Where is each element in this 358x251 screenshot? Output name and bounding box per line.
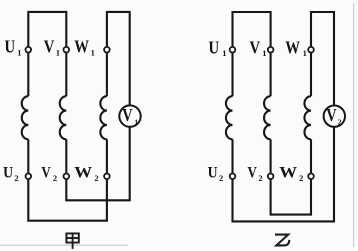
svg-text:2: 2 [338, 118, 342, 127]
svg-text:V: V [41, 164, 51, 182]
svg-text:V: V [122, 105, 133, 126]
svg-text:1: 1 [303, 48, 307, 58]
svg-text:W: W [285, 37, 300, 58]
svg-text:1: 1 [134, 117, 138, 126]
svg-text:V: V [44, 36, 55, 57]
svg-text:W: W [74, 36, 89, 57]
svg-text:V: V [326, 104, 337, 125]
svg-text:V: V [250, 37, 261, 58]
svg-text:W: W [74, 163, 92, 181]
svg-text:1: 1 [262, 48, 266, 58]
svg-text:2: 2 [219, 173, 223, 183]
svg-text:U: U [209, 37, 220, 58]
svg-text:2: 2 [258, 173, 262, 183]
svg-text:U: U [3, 165, 13, 182]
svg-text:U: U [208, 165, 218, 182]
svg-text:2: 2 [94, 173, 98, 183]
svg-text:U: U [4, 36, 15, 57]
svg-text:2: 2 [14, 173, 18, 183]
svg-text:1: 1 [222, 48, 226, 58]
svg-text:2: 2 [299, 173, 303, 183]
svg-text:1: 1 [17, 47, 21, 57]
svg-text:2: 2 [53, 173, 57, 183]
svg-text:1: 1 [56, 47, 60, 57]
svg-text:V: V [248, 164, 258, 182]
svg-text:W: W [279, 163, 297, 181]
svg-text:1: 1 [91, 47, 95, 57]
